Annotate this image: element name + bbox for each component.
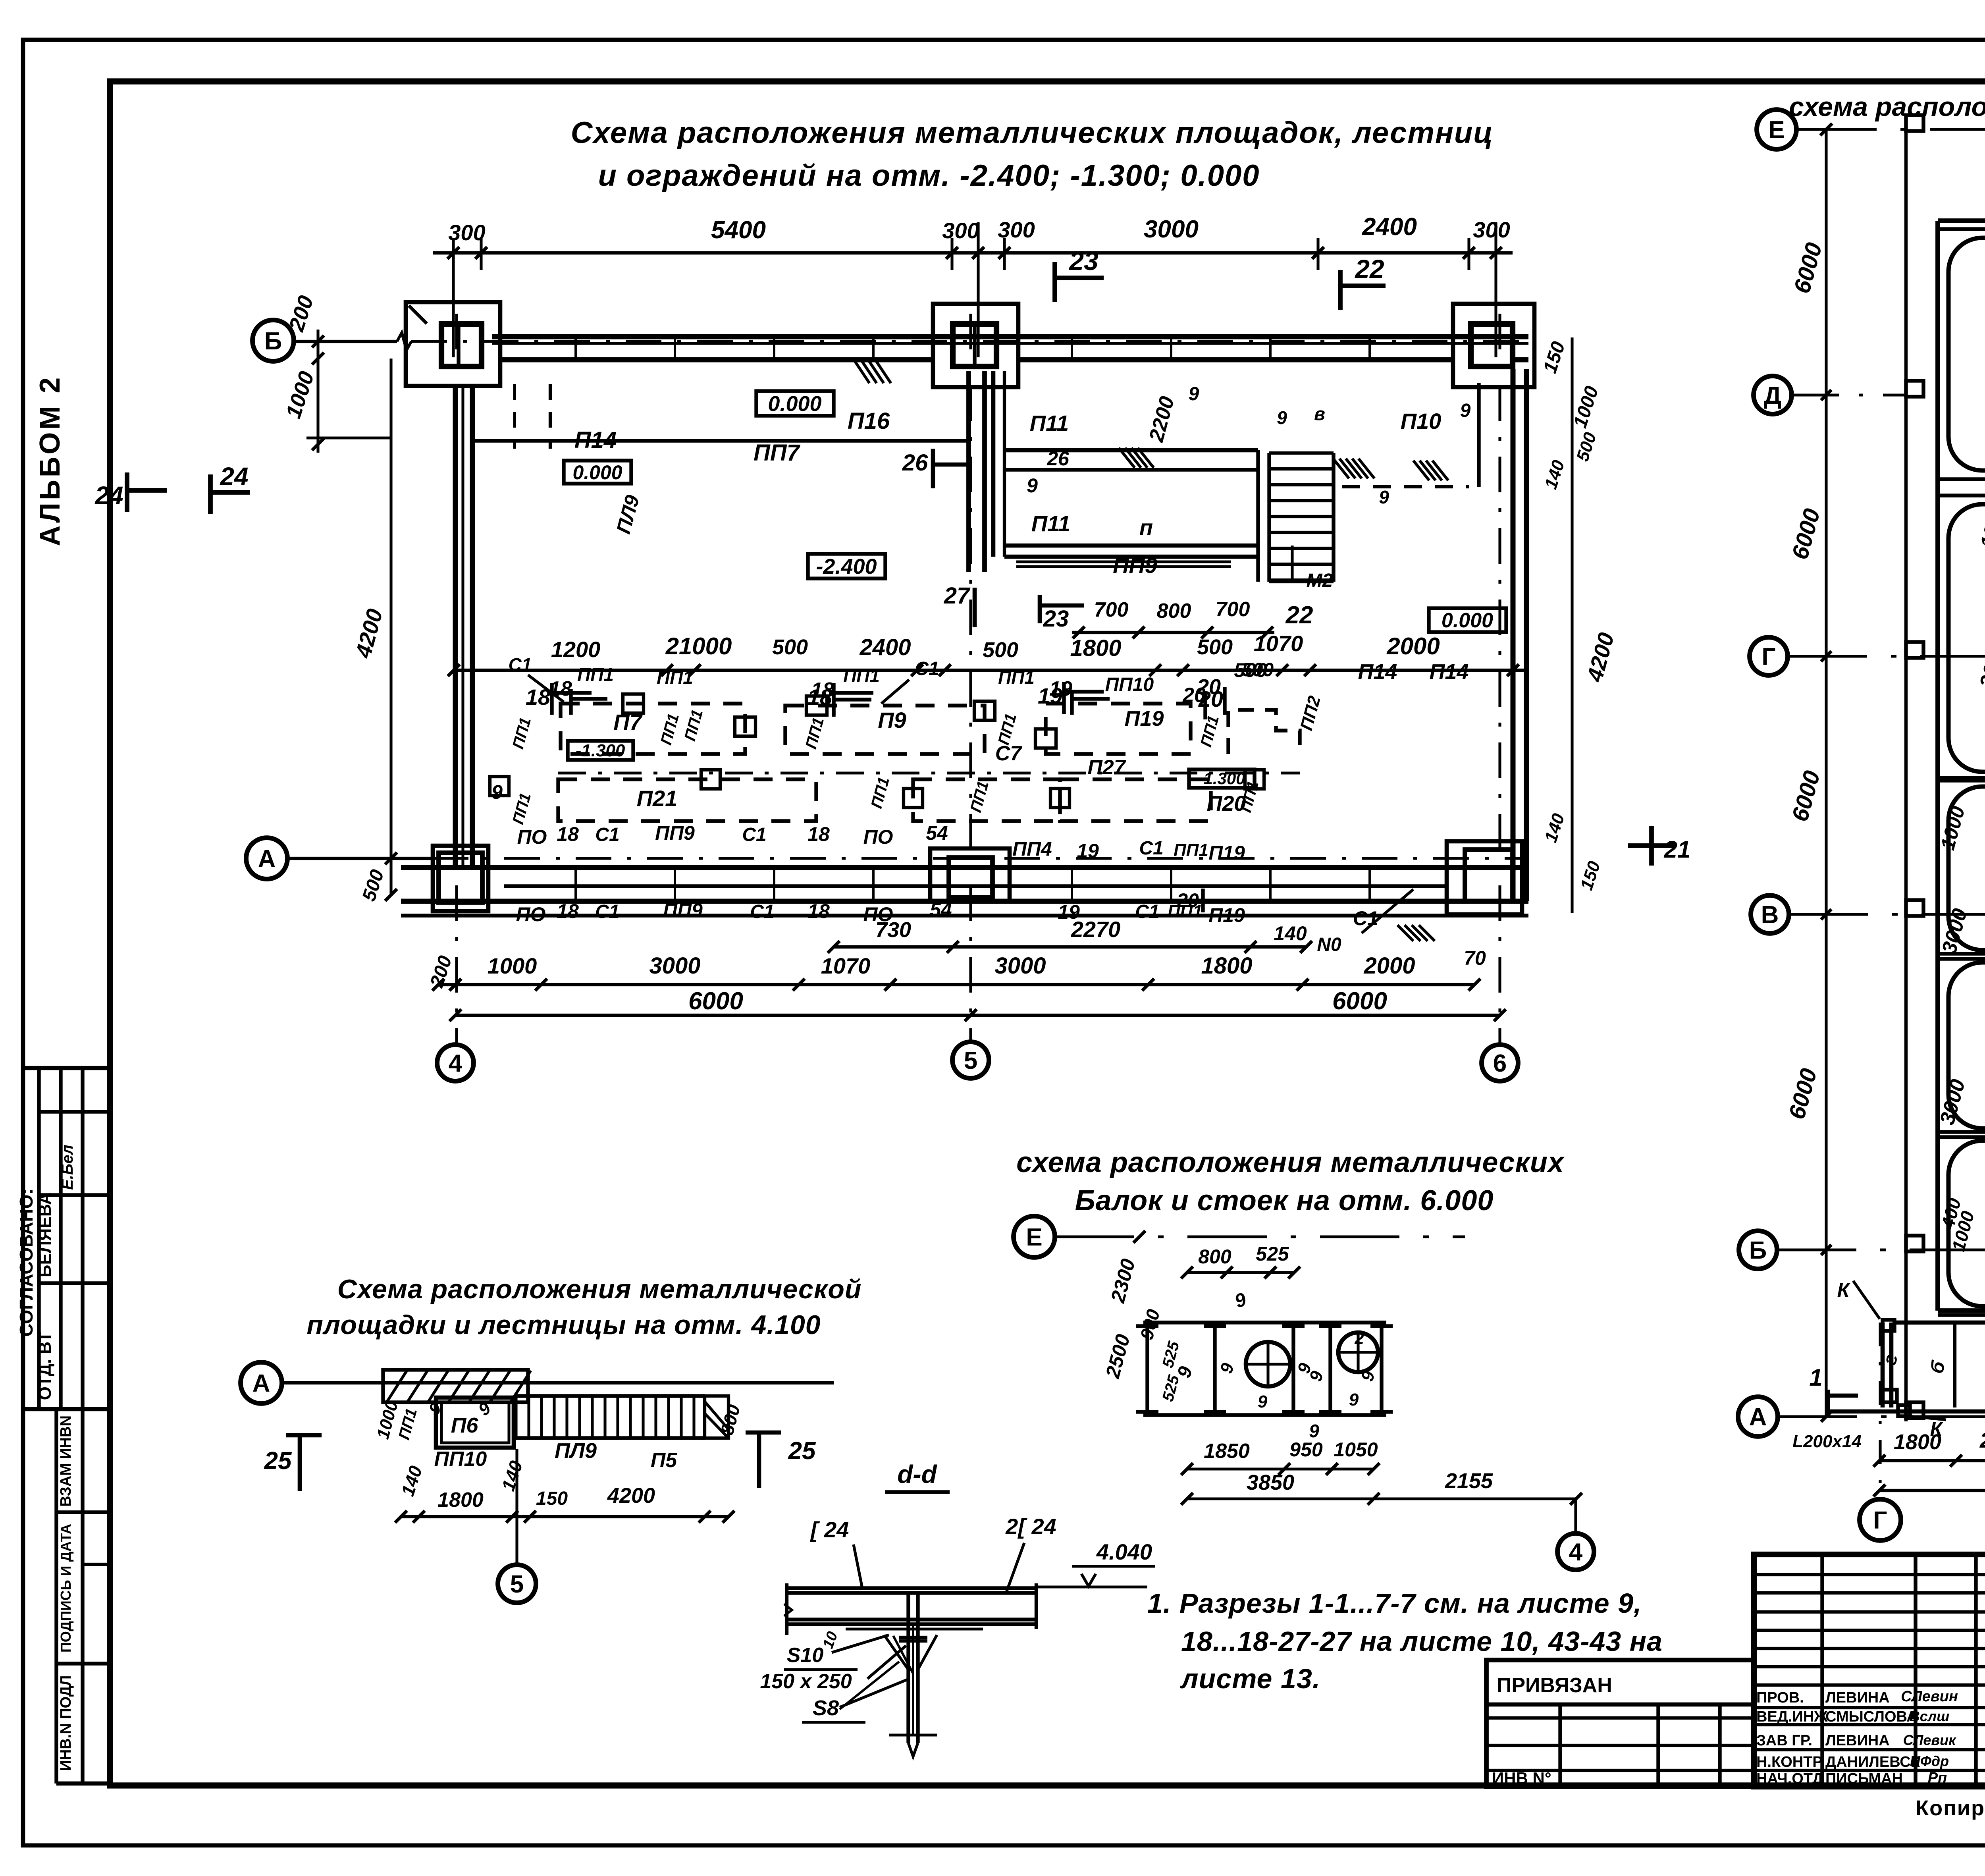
svg-text:3000: 3000 — [649, 953, 700, 979]
svg-text:-2.400: -2.400 — [816, 555, 877, 578]
platform П19 dashed rect — [1046, 704, 1191, 754]
column Б6 — [1453, 304, 1534, 387]
svg-text:П9: П9 — [878, 708, 906, 733]
svg-text:Рп: Рп — [1928, 1770, 1947, 1786]
svg-text:схема расположения металлическ: схема расположения металлических балок н… — [1789, 92, 1985, 122]
svg-text:6000: 6000 — [1784, 1066, 1822, 1122]
svg-text:18: 18 — [807, 900, 830, 922]
bottom wall beam ticks — [574, 868, 577, 901]
svg-text:9: 9 — [1379, 487, 1389, 507]
svg-text:2400: 2400 — [859, 634, 911, 660]
flag 26 a — [931, 449, 935, 488]
section flags 24 — [125, 472, 129, 512]
svg-text:П10: П10 — [1401, 409, 1442, 434]
d-d column — [906, 1593, 910, 1743]
stair right hatch — [705, 1396, 728, 1438]
svg-text:27: 27 — [944, 583, 971, 609]
svg-text:-1.300: -1.300 — [1198, 769, 1245, 788]
svg-text:П19: П19 — [1125, 707, 1164, 731]
svg-text:18: 18 — [557, 823, 579, 845]
flag 18 b — [832, 683, 835, 715]
svg-text:ПП1: ПП1 — [509, 791, 534, 826]
svg-text:19: 19 — [1077, 840, 1099, 862]
platform box П6 — [436, 1398, 514, 1448]
grid axis 6 — [1498, 314, 1501, 1044]
svg-text:ПП1: ПП1 — [1197, 713, 1222, 748]
svg-text:ПП10: ПП10 — [1105, 674, 1154, 695]
d-d beam top flange — [787, 1586, 1036, 1590]
column А4 — [433, 846, 488, 911]
svg-text:П6: П6 — [451, 1413, 479, 1437]
svg-text:3850: 3850 — [1247, 1471, 1294, 1494]
mid plan circles — [1246, 1342, 1290, 1386]
svg-text:Н.КОНТР: Н.КОНТР — [1756, 1754, 1823, 1770]
svg-text:800: 800 — [1198, 1246, 1231, 1268]
svg-text:700: 700 — [1216, 598, 1250, 621]
svg-text:70: 70 — [1464, 947, 1486, 969]
svg-text:Схема расположения металлическ: Схема расположения металлических площадо… — [571, 116, 1494, 150]
svg-text:300: 300 — [1473, 217, 1510, 242]
svg-text:0.000: 0.000 — [1442, 609, 1493, 632]
hatch cross corridor — [1119, 448, 1135, 468]
svg-text:ПЛ9: ПЛ9 — [555, 1439, 597, 1463]
svg-text:Б: Б — [264, 328, 282, 355]
margin strip table — [23, 1066, 110, 1070]
svg-text:1800: 1800 — [1201, 953, 1252, 979]
column А6 — [1447, 841, 1522, 914]
svg-text:L200x14: L200x14 — [1792, 1432, 1862, 1451]
svg-text:ЛЕВИНА: ЛЕВИНА — [1825, 1732, 1890, 1749]
svg-text:140: 140 — [497, 1458, 526, 1493]
grid axis Г right — [1750, 637, 1788, 675]
svg-text:22: 22 — [1285, 602, 1313, 629]
svg-text:1000: 1000 — [1936, 804, 1969, 852]
svg-text:листе 13.: листе 13. — [1180, 1663, 1320, 1694]
d-d gussets — [884, 1635, 908, 1670]
svg-text:Г: Г — [1873, 1507, 1887, 1534]
svg-text:СЛевик: СЛевик — [1903, 1732, 1956, 1748]
title block left thin rows — [1754, 1573, 1985, 1576]
grid axis 5 — [969, 314, 972, 1042]
svg-text:500: 500 — [772, 635, 808, 659]
svg-text:1000: 1000 — [1570, 384, 1603, 430]
label -2.400 box — [808, 554, 885, 578]
svg-text:Е: Е — [1026, 1224, 1042, 1251]
svg-text:С1: С1 — [1139, 838, 1163, 859]
svg-text:ПП1: ПП1 — [868, 775, 893, 810]
right plan left dim line 6000s — [1825, 129, 1827, 1417]
svg-text:1000: 1000 — [1976, 502, 1985, 550]
svg-text:ЛЕВИНА: ЛЕВИНА — [1825, 1689, 1890, 1706]
middle dimension row — [454, 669, 1526, 672]
platform ПП2 step right — [1228, 710, 1300, 754]
flag 27 mid — [973, 588, 977, 627]
svg-text:E.Бел: E.Бел — [59, 1145, 76, 1190]
svg-text:М2: М2 — [1307, 570, 1333, 591]
svg-text:ПП1: ПП1 — [657, 711, 682, 746]
room bottom wall — [1004, 544, 1258, 548]
bottom inner dim row 730 2270 140 — [834, 945, 1306, 949]
svg-text:Д: Д — [1764, 382, 1781, 409]
svg-text:S10: S10 — [787, 1644, 824, 1667]
svg-text:5: 5 — [510, 1571, 524, 1598]
svg-text:и ограждений на отм. -2.400; -: и ограждений на отм. -2.400; -1.300; 0.0… — [598, 159, 1260, 193]
svg-text:ДАНИЛЕВСК: ДАНИЛЕВСК — [1825, 1754, 1920, 1770]
svg-text:1. Разрезы 1-1...7-7 см. на ли: 1. Разрезы 1-1...7-7 см. на листе 9, — [1147, 1588, 1642, 1619]
svg-text:А: А — [252, 1370, 270, 1397]
bottom dim row main — [438, 983, 1474, 986]
left vertical dim 200 1000 — [316, 330, 319, 453]
d-d beam lower flange — [787, 1618, 1036, 1621]
svg-text:ПЛ9: ПЛ9 — [612, 493, 644, 536]
svg-text:ПО: ПО — [863, 903, 893, 925]
svg-text:1800: 1800 — [1894, 1430, 1941, 1454]
svg-text:500: 500 — [1242, 659, 1274, 681]
svg-text:300: 300 — [998, 217, 1035, 242]
svg-text:ПП9: ПП9 — [655, 822, 695, 844]
svg-text:П11: П11 — [1030, 411, 1069, 436]
svg-text:500: 500 — [983, 638, 1018, 662]
svg-text:500: 500 — [1197, 635, 1233, 659]
tank block outer walls — [1938, 218, 1985, 223]
svg-text:2500: 2500 — [1101, 1332, 1134, 1380]
svg-text:А: А — [258, 845, 276, 873]
section flag 21 right — [1649, 826, 1654, 866]
svg-text:6: 6 — [1493, 1050, 1507, 1077]
svg-text:3000: 3000 — [1975, 640, 1985, 690]
svg-text:54: 54 — [930, 898, 952, 921]
svg-text:54: 54 — [926, 822, 948, 844]
label -1.300 box a — [568, 741, 633, 760]
title block left columns — [1820, 1554, 1824, 1787]
svg-text:ПП1: ПП1 — [995, 711, 1020, 746]
svg-text:3000: 3000 — [1936, 1077, 1970, 1127]
svg-text:4: 4 — [1569, 1539, 1583, 1566]
mid plan dims below — [1187, 1467, 1374, 1470]
svg-text:18: 18 — [811, 679, 834, 702]
d-d bottom arrow — [889, 1733, 937, 1736]
svg-text:4.040: 4.040 — [1096, 1539, 1152, 1564]
left vertical dim 4200 500 — [389, 359, 392, 895]
svg-text:700: 700 — [1094, 598, 1129, 621]
П10 room dashed bottom — [1342, 485, 1469, 488]
flag 20 a — [1223, 687, 1226, 715]
svg-text:ИНВ.N ПОДЛ: ИНВ.N ПОДЛ — [58, 1675, 74, 1771]
grid circle 5 bottom-left — [515, 1449, 518, 1564]
svg-text:1850: 1850 — [1204, 1440, 1250, 1463]
right plan column line — [1904, 119, 1908, 1421]
svg-text:19: 19 — [1049, 677, 1072, 700]
tank cells rounded — [1948, 238, 1985, 470]
svg-text:N0: N0 — [1317, 934, 1341, 955]
svg-text:500: 500 — [358, 867, 388, 904]
svg-text:Копировал: Коршунова: Копировал: Коршунова — [1916, 1796, 1985, 1820]
svg-text:1800: 1800 — [1070, 635, 1121, 661]
svg-text:18: 18 — [549, 677, 572, 700]
svg-text:ПП2: ПП2 — [1297, 694, 1324, 733]
tank cell divider walls — [1938, 227, 1985, 231]
svg-text:ПП1: ПП1 — [802, 715, 827, 750]
svg-text:2000: 2000 — [1363, 953, 1415, 979]
svg-text:ПП1: ПП1 — [1174, 841, 1208, 860]
leader line C1 bottom — [1362, 889, 1413, 933]
svg-text:П19: П19 — [1208, 842, 1245, 864]
hatch cross top — [854, 359, 869, 383]
platform П21 row2 — [558, 779, 816, 821]
svg-text:26: 26 — [1046, 447, 1070, 470]
svg-text:С1: С1 — [509, 654, 532, 675]
svg-text:К: К — [1837, 1279, 1851, 1301]
svg-text:П5: П5 — [651, 1449, 677, 1472]
svg-text:3000: 3000 — [1144, 216, 1199, 243]
svg-text:БЕЛЯЕВА: БЕЛЯЕВА — [35, 1192, 55, 1277]
left plan top dimension line — [433, 251, 1513, 255]
svg-text:П16: П16 — [848, 408, 890, 434]
svg-text:ПП1: ПП1 — [681, 708, 706, 742]
right wall of left plan — [1511, 369, 1516, 901]
column А5 — [930, 848, 1010, 901]
svg-text:21000: 21000 — [665, 633, 732, 659]
svg-text:4: 4 — [449, 1050, 463, 1077]
stair treads bottom-left — [514, 1394, 705, 1398]
section flag 23 top — [1052, 262, 1057, 302]
svg-text:21: 21 — [1664, 836, 1691, 863]
svg-text:ПОДПИСЬ И ДАТА: ПОДПИСЬ И ДАТА — [58, 1524, 74, 1652]
svg-text:площадки и лестницы на отм. 4.: площадки и лестницы на отм. 4.100 — [306, 1310, 821, 1340]
svg-text:2400: 2400 — [1362, 213, 1417, 241]
upper right room walls — [991, 371, 996, 557]
svg-text:Б: Б — [1749, 1237, 1767, 1264]
svg-text:ОТД. ВТ: ОТД. ВТ — [35, 1331, 55, 1400]
svg-text:ПРИВЯЗАН: ПРИВЯЗАН — [1497, 1674, 1612, 1697]
platform П20 row2 — [1060, 779, 1211, 821]
flag 20 bottom — [1201, 889, 1204, 912]
grid axis А left — [287, 857, 433, 860]
svg-text:22: 22 — [1354, 254, 1384, 283]
svg-text:9: 9 — [1306, 1369, 1327, 1384]
grid axis В right — [1751, 895, 1789, 933]
svg-text:ПО: ПО — [517, 826, 547, 848]
svg-text:2400: 2400 — [1979, 1429, 1985, 1452]
svg-text:НАЧ.ОТД: НАЧ.ОТД — [1756, 1770, 1823, 1787]
svg-text:ИНВ N°: ИНВ N° — [1492, 1769, 1551, 1787]
svg-text:525: 525 — [1256, 1243, 1289, 1265]
svg-text:150: 150 — [536, 1488, 568, 1509]
d-d base plate — [899, 1636, 927, 1639]
flag 23 mid — [1038, 595, 1042, 623]
svg-text:2[ 24: 2[ 24 — [1005, 1514, 1056, 1539]
left wall — [453, 386, 458, 868]
svg-text:ПП10: ПП10 — [434, 1448, 487, 1471]
svg-text:Схема расположения металлическ: Схема расположения металлической — [337, 1274, 862, 1304]
corridor-stair partition — [1256, 450, 1260, 582]
column Б5 — [933, 304, 1018, 387]
svg-text:5400: 5400 — [711, 216, 766, 244]
svg-text:ПП9: ПП9 — [1113, 553, 1157, 578]
svg-text:С1: С1 — [595, 824, 619, 845]
label 0.000 box right — [1429, 608, 1506, 632]
svg-text:140: 140 — [1274, 922, 1307, 945]
svg-text:6000: 6000 — [688, 987, 743, 1015]
platform hatched strip — [383, 1370, 528, 1402]
svg-text:ПП9: ПП9 — [663, 899, 703, 922]
svg-text:2155: 2155 — [1445, 1469, 1493, 1493]
svg-text:-1.300: -1.300 — [576, 741, 625, 760]
svg-text:П21: П21 — [637, 786, 678, 811]
grid axis 4 — [455, 314, 458, 1044]
label 0.000 box top — [756, 391, 834, 416]
mid plan dims above — [1187, 1271, 1294, 1274]
svg-text:500: 500 — [1573, 430, 1600, 464]
grid axis Е right — [1757, 110, 1796, 149]
flag 18 a — [550, 683, 553, 715]
svg-text:1070: 1070 — [821, 953, 871, 978]
svg-text:Балок и стоек на отм. 6.000: Балок и стоек на отм. 6.000 — [1075, 1185, 1494, 1217]
svg-text:24: 24 — [220, 462, 248, 491]
svg-text:ПП1: ПП1 — [577, 664, 614, 685]
svg-text:1050: 1050 — [1334, 1438, 1378, 1461]
bottom dims right plan row1 — [1879, 1459, 1985, 1462]
svg-text:1: 1 — [1809, 1364, 1822, 1391]
svg-text:19: 19 — [1058, 901, 1080, 923]
svg-text:0.000: 0.000 — [768, 392, 821, 416]
svg-text:С1: С1 — [1353, 907, 1378, 929]
svg-text:800: 800 — [1157, 600, 1191, 623]
svg-text:150 x 250: 150 x 250 — [760, 1670, 852, 1693]
svg-text:А: А — [1749, 1404, 1767, 1431]
bottom wall — [401, 865, 1528, 870]
mid plan frame — [1143, 1321, 1386, 1324]
svg-text:СМЫСЛОВА: СМЫСЛОВА — [1825, 1708, 1918, 1725]
svg-text:6000: 6000 — [1787, 506, 1825, 562]
row1 flags and small labels — [569, 689, 572, 715]
svg-text:6000: 6000 — [1789, 240, 1827, 296]
column Б4 — [406, 302, 500, 386]
svg-text:п: п — [1139, 515, 1153, 540]
svg-text:П11: П11 — [1031, 511, 1070, 536]
grid axis Д right — [1754, 376, 1792, 414]
svg-text:в: в — [1314, 403, 1325, 424]
svg-text:525: 525 — [1159, 1373, 1183, 1404]
svg-text:1200: 1200 — [551, 637, 601, 662]
svg-text:2: 2 — [1354, 1329, 1364, 1348]
svg-text:В: В — [1761, 901, 1779, 929]
svg-text:2200: 2200 — [1145, 394, 1179, 445]
svg-text:ПП1: ПП1 — [657, 667, 693, 688]
annex table привязан — [1486, 1660, 1754, 1787]
svg-text:схема расположения металлическ: схема расположения металлических — [1016, 1147, 1565, 1178]
flag 1 left — [1826, 1390, 1830, 1413]
svg-text:18...18-27-27 на листе 10, 43-: 18...18-27-27 на листе 10, 43-43 на — [1181, 1626, 1663, 1657]
svg-text:9: 9 — [491, 781, 503, 803]
svg-text:С1: С1 — [750, 901, 774, 922]
svg-text:140: 140 — [397, 1463, 426, 1498]
platform axis dash-dot — [558, 771, 1300, 774]
small clamp squares row1 — [623, 694, 644, 713]
small clamp squares row2 — [701, 770, 720, 789]
svg-text:ПП7: ПП7 — [754, 440, 800, 466]
svg-text:2: 2 — [1981, 1342, 1985, 1358]
label -1.300 box b — [1189, 769, 1255, 788]
svg-text:9: 9 — [1189, 384, 1199, 405]
svg-text:2000: 2000 — [1386, 633, 1440, 659]
svg-text:ПП1: ПП1 — [843, 665, 880, 686]
svg-text:[ 24: [ 24 — [810, 1517, 849, 1542]
svg-text:ПП1: ПП1 — [998, 667, 1035, 688]
grid circle Е mid — [1014, 1216, 1055, 1257]
svg-text:ПО: ПО — [516, 903, 546, 925]
interior wall axis5 top — [966, 371, 971, 572]
svg-text:С1: С1 — [742, 824, 766, 845]
platform П27 row2 — [913, 779, 1060, 821]
svg-text:ПП1: ПП1 — [509, 715, 534, 750]
svg-text:525: 525 — [1159, 1339, 1183, 1370]
stair hatch marks — [1333, 459, 1349, 478]
svg-text:20: 20 — [1176, 889, 1199, 912]
svg-text:С7: С7 — [995, 742, 1023, 765]
bottom left section right plan — [1881, 1323, 1885, 1407]
flag 25 right — [757, 1433, 761, 1488]
svg-text:18: 18 — [557, 900, 579, 922]
svg-text:4200: 4200 — [607, 1484, 655, 1508]
svg-text:300: 300 — [942, 218, 979, 243]
svg-text:ВЗАМ ИНВN: ВЗАМ ИНВN — [58, 1415, 74, 1507]
svg-text:1070: 1070 — [1254, 631, 1303, 656]
svg-text:200: 200 — [284, 293, 318, 334]
svg-text:СОГЛАСОВАНО:: СОГЛАСОВАНО: — [16, 1188, 37, 1336]
svg-text:ПРОВ.: ПРОВ. — [1756, 1689, 1804, 1706]
grid axis Б left — [294, 340, 397, 343]
svg-text:2300: 2300 — [1106, 1256, 1139, 1305]
svg-text:d-d: d-d — [897, 1460, 937, 1488]
svg-text:5: 5 — [964, 1047, 977, 1074]
svg-text:9: 9 — [1232, 1289, 1249, 1312]
svg-text:9: 9 — [1460, 400, 1471, 421]
svg-text:25: 25 — [788, 1437, 816, 1465]
svg-text:С1: С1 — [1135, 901, 1159, 922]
svg-text:24: 24 — [94, 481, 123, 510]
right edge rotated dims left plan — [1571, 337, 1573, 913]
svg-text:18: 18 — [807, 823, 830, 845]
platform П7 dashed rect — [561, 704, 745, 754]
svg-text:С1: С1 — [915, 658, 939, 679]
flag 19 a — [1062, 682, 1066, 714]
title block main frame — [1754, 1554, 1985, 1787]
grid axis Б right — [1739, 1231, 1777, 1269]
svg-text:1000: 1000 — [488, 953, 537, 978]
svg-text:4200: 4200 — [1582, 630, 1619, 685]
section flag 22 top — [1338, 270, 1343, 310]
svg-text:ПП4: ПП4 — [1012, 838, 1052, 860]
svg-text:150: 150 — [1577, 859, 1604, 893]
svg-text:800: 800 — [716, 1402, 744, 1437]
svg-text:АЛЬБОМ 2: АЛЬБОМ 2 — [34, 375, 66, 546]
svg-text:НФдр: НФдр — [1910, 1753, 1949, 1769]
svg-text:3000: 3000 — [994, 953, 1046, 979]
svg-text:25: 25 — [264, 1447, 292, 1475]
svg-text:23: 23 — [1043, 606, 1069, 632]
dashed b line left of room — [549, 384, 552, 449]
svg-text:9: 9 — [1349, 1390, 1359, 1409]
svg-text:20: 20 — [1182, 684, 1206, 707]
bottom dim row 6000 — [455, 1014, 1500, 1017]
svg-text:6000: 6000 — [1787, 768, 1825, 824]
svg-text:б: б — [1926, 1359, 1950, 1376]
svg-text:6000: 6000 — [1332, 987, 1387, 1015]
svg-text:1000: 1000 — [281, 368, 319, 421]
svg-text:140: 140 — [1541, 811, 1569, 845]
svg-text:П14: П14 — [574, 427, 617, 453]
